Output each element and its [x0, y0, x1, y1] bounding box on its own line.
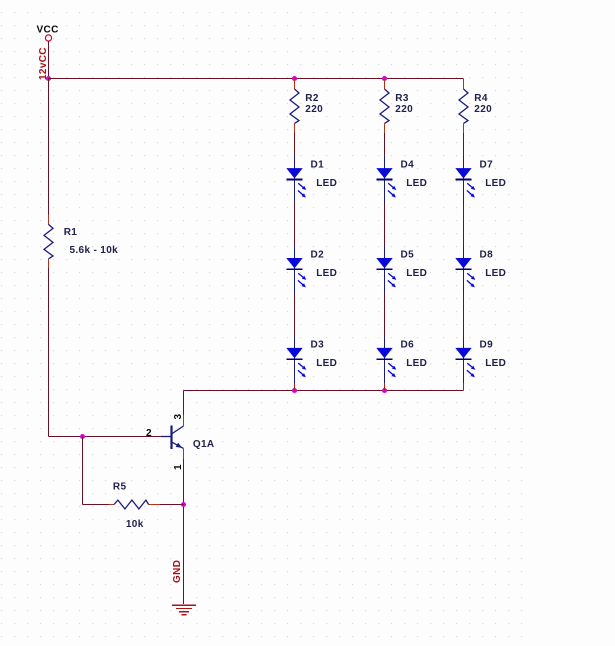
svg-text:LED: LED [485, 178, 506, 189]
svg-text:LED: LED [316, 178, 337, 189]
resistor R4 [459, 79, 468, 134]
wire rail bottom [184, 390, 464, 392]
power terminal VCC [45, 35, 51, 41]
junction base node [80, 434, 85, 439]
junction emitter node [181, 502, 186, 507]
wire D6 anode [384, 293, 386, 336]
svg-text:R5: R5 [113, 481, 127, 492]
svg-text:D8: D8 [480, 250, 494, 261]
svg-text:D2: D2 [311, 250, 325, 261]
wire top rail [49, 78, 464, 80]
LED D8 [455, 246, 475, 293]
wire VCC stub [48, 41, 50, 78]
svg-text:220: 220 [305, 104, 323, 115]
svg-text:D1: D1 [311, 160, 325, 171]
wire D1 anode [294, 133, 296, 156]
wire D3 cathode to rail [294, 383, 296, 390]
wire left rail lower [48, 268, 50, 437]
wire collector [183, 391, 185, 427]
svg-text:R3: R3 [395, 93, 409, 104]
junction rail node A [292, 76, 297, 81]
LED D2 [286, 246, 306, 293]
ground [172, 605, 196, 615]
LED D1 [286, 156, 306, 203]
resistor R2 [290, 79, 299, 134]
junction VCC node [46, 76, 51, 81]
svg-text:GND: GND [172, 560, 183, 583]
LED D6 [376, 336, 396, 383]
wire D9 anode [463, 293, 465, 336]
svg-text:D6: D6 [401, 340, 415, 351]
LED D9 [455, 336, 475, 383]
wire D5 anode [384, 203, 386, 246]
svg-text:220: 220 [474, 104, 492, 115]
wire emitter [183, 448, 185, 604]
LED D7 [455, 156, 475, 203]
svg-text:D9: D9 [480, 340, 494, 351]
wire D7 anode [463, 133, 465, 156]
LED D4 [376, 156, 396, 203]
svg-text:LED: LED [485, 268, 506, 279]
wire base net [49, 436, 162, 438]
svg-text:LED: LED [316, 268, 337, 279]
svg-text:LED: LED [316, 358, 337, 369]
svg-text:D4: D4 [401, 160, 415, 171]
svg-text:5.6k - 10k: 5.6k - 10k [70, 245, 119, 256]
transistor Q1A [161, 426, 184, 450]
wire D3 anode [294, 293, 296, 336]
svg-text:D5: D5 [401, 250, 415, 261]
resistor R3 [380, 79, 389, 134]
junction bottom node B [382, 388, 387, 393]
LED D3 [286, 336, 306, 383]
wire R5 branch vertical [82, 437, 84, 505]
svg-text:LED: LED [406, 178, 427, 189]
svg-text:12vCC: 12vCC [38, 47, 49, 80]
svg-text:10k: 10k [126, 519, 144, 530]
wire D2 anode [294, 203, 296, 246]
wire D8 anode [463, 203, 465, 246]
svg-text:2: 2 [146, 428, 152, 439]
wire D9 cathode to rail [463, 383, 465, 390]
svg-text:R1: R1 [64, 227, 78, 238]
svg-text:3: 3 [173, 414, 184, 420]
svg-text:1: 1 [173, 464, 184, 470]
svg-text:LED: LED [406, 268, 427, 279]
svg-text:220: 220 [395, 104, 413, 115]
svg-text:VCC: VCC [37, 25, 59, 36]
svg-text:LED: LED [406, 358, 427, 369]
wire D4 anode [384, 133, 386, 156]
wire D6 cathode to rail [384, 383, 386, 390]
junction bottom node A [292, 388, 297, 393]
LED D5 [376, 246, 396, 293]
svg-text:D3: D3 [311, 340, 325, 351]
resistor R1 [44, 215, 53, 269]
junction rail node B [382, 76, 387, 81]
svg-text:D7: D7 [480, 160, 494, 171]
wire left rail upper [48, 79, 50, 215]
svg-text:Q1A: Q1A [193, 439, 215, 450]
resistor R5 [83, 500, 184, 509]
svg-text:R4: R4 [474, 93, 488, 104]
svg-text:R2: R2 [305, 93, 319, 104]
svg-text:LED: LED [485, 358, 506, 369]
